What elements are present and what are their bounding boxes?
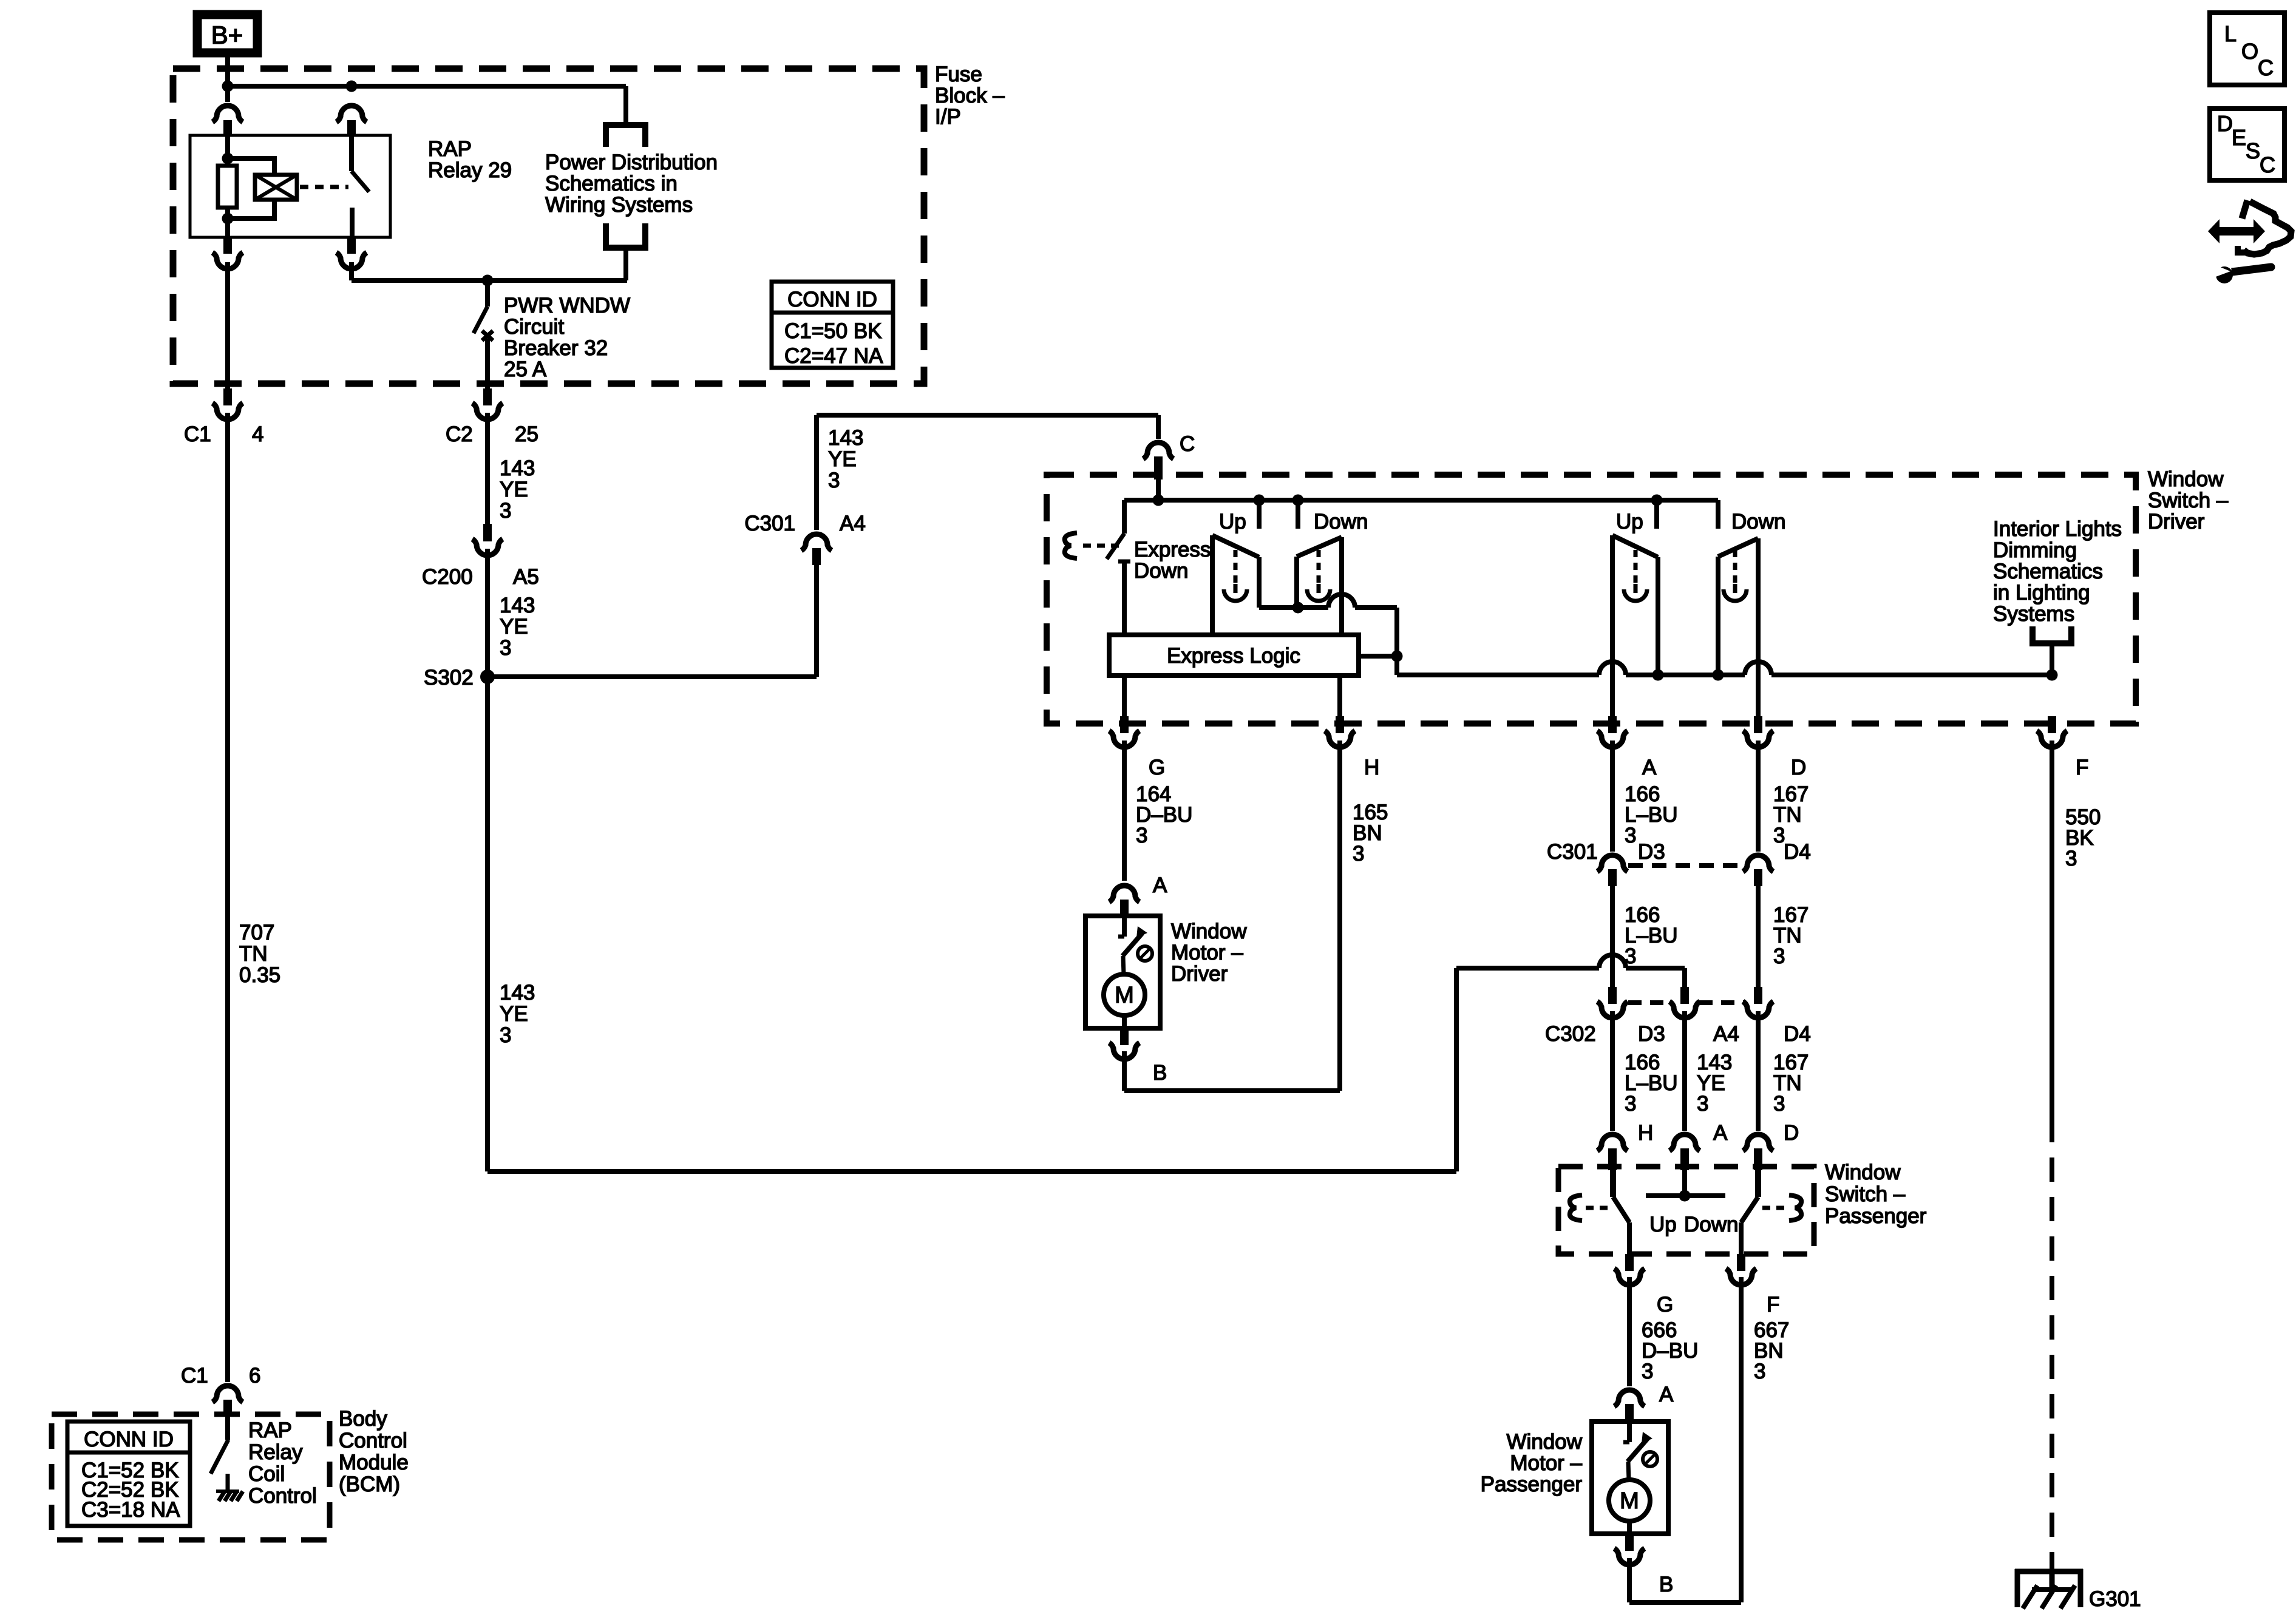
svg-text:Coil: Coil [248,1462,285,1486]
svg-text:Circuit: Circuit [504,315,564,339]
svg-text:Body: Body [339,1407,387,1431]
svg-text:A: A [1659,1383,1674,1406]
svg-text:A4: A4 [840,512,866,535]
svg-text:3: 3 [1773,1092,1785,1116]
svg-text:Driver: Driver [2148,510,2205,534]
svg-text:F: F [1767,1293,1779,1317]
svg-text:Control: Control [248,1484,317,1508]
svg-text:C2: C2 [446,422,473,446]
svg-text:C1: C1 [184,422,211,446]
svg-text:143: 143 [500,456,535,480]
svg-text:I/P: I/P [935,105,961,129]
svg-text:Relay: Relay [248,1440,303,1464]
svg-text:L: L [2224,21,2237,46]
svg-text:YE: YE [500,478,528,501]
svg-text:Control: Control [339,1429,407,1452]
svg-text:D4: D4 [1784,1022,1811,1046]
svg-text:Express: Express [1134,538,1211,561]
svg-text:C1: C1 [181,1364,208,1388]
svg-text:B: B [1659,1573,1673,1596]
svg-text:A5: A5 [513,565,539,589]
svg-text:S302: S302 [424,666,474,690]
svg-text:S: S [2246,138,2260,163]
svg-text:Breaker 32: Breaker 32 [504,336,608,360]
svg-text:Wiring Systems: Wiring Systems [545,193,693,217]
svg-text:Down: Down [1134,559,1188,583]
svg-text:C3=18 NA: C3=18 NA [81,1498,180,1522]
svg-text:3: 3 [1625,824,1636,847]
svg-text:G: G [1657,1293,1673,1317]
svg-text:(BCM): (BCM) [339,1473,400,1496]
svg-text:3: 3 [1625,1092,1636,1116]
svg-text:G: G [1149,756,1165,779]
svg-text:Up: Up [1649,1213,1677,1236]
svg-text:M: M [1620,1488,1639,1514]
svg-text:F: F [2076,756,2088,779]
svg-text:B: B [1153,1061,1167,1085]
svg-text:25 A: 25 A [504,358,547,381]
svg-text:D4: D4 [1784,840,1811,864]
svg-text:Switch –: Switch – [2148,489,2229,512]
svg-text:Schematics: Schematics [1993,560,2103,583]
svg-text:Up: Up [1616,510,1643,534]
svg-text:3: 3 [2065,847,2077,870]
svg-text:Motor –: Motor – [1171,941,1243,964]
svg-text:143: 143 [828,426,863,450]
svg-text:D: D [2217,111,2233,136]
svg-text:143: 143 [500,594,535,617]
svg-text:YE: YE [828,447,857,471]
svg-text:A4: A4 [1713,1022,1739,1046]
svg-text:Window: Window [1507,1430,1583,1454]
svg-text:C301: C301 [1547,840,1598,864]
svg-text:3: 3 [1136,824,1147,847]
svg-text:3: 3 [1625,944,1636,968]
svg-text:Power Distribution: Power Distribution [545,151,718,174]
svg-text:A: A [1642,756,1657,779]
svg-text:3: 3 [1697,1092,1708,1116]
svg-text:Relay 29: Relay 29 [428,158,512,182]
svg-text:3: 3 [500,1023,511,1047]
svg-text:D3: D3 [1638,840,1665,864]
svg-text:Switch –: Switch – [1825,1182,1906,1206]
svg-text:707: 707 [239,921,274,944]
svg-text:3: 3 [1642,1360,1653,1383]
svg-text:Window: Window [1171,920,1247,943]
svg-text:Block –: Block – [935,84,1005,107]
svg-text:CONN ID: CONN ID [84,1428,174,1451]
svg-text:Interior Lights: Interior Lights [1993,517,2122,541]
svg-text:D: D [1784,1121,1799,1145]
svg-text:Down: Down [1314,510,1368,534]
svg-text:3: 3 [500,499,511,523]
svg-text:RAP: RAP [428,137,472,161]
svg-text:C1=50 BK: C1=50 BK [784,319,882,343]
svg-text:Systems: Systems [1993,602,2074,626]
svg-text:H: H [1638,1121,1653,1145]
svg-text:G301: G301 [2089,1587,2141,1611]
svg-text:CONN ID: CONN ID [787,288,877,311]
svg-text:Down: Down [1684,1213,1738,1236]
svg-text:Up: Up [1219,510,1246,534]
svg-text:C2=47 NA: C2=47 NA [784,344,883,368]
svg-text:A: A [1713,1121,1728,1145]
svg-text:3: 3 [1353,842,1364,866]
svg-text:C: C [2258,55,2274,80]
svg-text:3: 3 [828,469,840,492]
svg-text:Dimming: Dimming [1993,538,2077,562]
svg-text:C302: C302 [1545,1022,1596,1046]
svg-text:C: C [2260,152,2275,177]
svg-text:Passenger: Passenger [1481,1473,1583,1496]
svg-text:Express Logic: Express Logic [1167,644,1300,668]
svg-text:D: D [1791,756,1806,779]
svg-text:Module: Module [339,1451,409,1474]
svg-text:B+: B+ [211,21,243,49]
svg-text:C301: C301 [744,512,795,535]
svg-text:Fuse: Fuse [935,63,982,86]
svg-text:in Lighting: in Lighting [1993,581,2090,605]
svg-text:3: 3 [1773,944,1785,968]
svg-text:3: 3 [1754,1360,1765,1383]
svg-text:6: 6 [249,1364,260,1388]
svg-text:D3: D3 [1638,1022,1665,1046]
svg-text:H: H [1364,756,1379,779]
svg-text:M: M [1115,983,1134,1008]
svg-text:PWR WNDW: PWR WNDW [504,294,630,317]
svg-text:Schematics in: Schematics in [545,172,678,195]
svg-text:TN: TN [239,942,268,966]
svg-text:Motor –: Motor – [1510,1451,1582,1475]
svg-text:O: O [2241,39,2258,64]
svg-text:Window: Window [2148,467,2224,491]
svg-text:C: C [1180,432,1195,456]
svg-text:3: 3 [500,636,511,660]
svg-text:Passenger: Passenger [1825,1204,1927,1228]
svg-text:4: 4 [252,422,263,446]
svg-text:Window: Window [1825,1161,1901,1184]
svg-text:E: E [2232,125,2246,150]
svg-text:25: 25 [515,422,538,446]
svg-text:YE: YE [500,1002,528,1026]
svg-text:YE: YE [500,615,528,639]
svg-text:0.35: 0.35 [239,963,280,987]
svg-text:Down: Down [1731,510,1785,534]
svg-text:RAP: RAP [248,1418,292,1442]
svg-text:143: 143 [500,981,535,1005]
svg-text:Driver: Driver [1171,962,1228,986]
svg-text:A: A [1153,873,1167,897]
svg-text:C200: C200 [422,565,473,589]
